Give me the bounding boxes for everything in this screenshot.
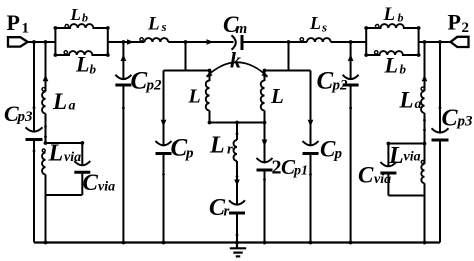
wire Lvia block right bottom — [388, 195, 424, 197]
svg-text:L: L — [52, 89, 67, 114]
arrow up on Cp2 left branch — [121, 54, 127, 61]
pin dot below Cp3 left — [33, 150, 36, 153]
ground — [230, 243, 246, 257]
capacitor Cp right — [303, 141, 319, 154]
arrow down on 2Cp1 branch — [262, 140, 268, 147]
svg-text:L: L — [48, 140, 64, 166]
label Lb top-left — [70, 5, 89, 25]
svg-text:L: L — [399, 88, 414, 113]
pin dot below Lr — [236, 175, 239, 178]
label Cp left — [171, 135, 195, 162]
wire drop to coupled right — [288, 42, 290, 71]
node junction dot left Cp3 branch — [32, 40, 36, 44]
wire Cp3 left branch down — [33, 42, 35, 133]
wire Cvia right branch down — [387, 144, 389, 168]
port P1 — [8, 37, 28, 46]
capacitor Cr — [229, 200, 245, 213]
svg-text:k: k — [230, 47, 241, 72]
label Cr — [209, 195, 230, 221]
inductor Lb box right: left edge — [365, 28, 367, 55]
wire La left to Lvia block — [45, 114, 47, 144]
inductor Ls left — [140, 38, 168, 42]
rail junction dots — [44, 241, 427, 245]
wire Cp2 left to bottom rail — [122, 85, 124, 243]
wire 2Cp1 to bottom rail — [264, 170, 266, 243]
svg-text:via: via — [98, 180, 115, 195]
svg-text:p2: p2 — [331, 78, 349, 94]
wire Cvia left to block bottom — [81, 172, 83, 195]
inductor Lvia left — [42, 149, 45, 174]
node junction dot Cp3 right branch — [438, 40, 442, 44]
node Lvia block right top-left — [387, 142, 391, 146]
capacitor Cp2 right — [343, 75, 359, 85]
node junction dot Cp2 right — [349, 40, 353, 44]
svg-text:L: L — [388, 143, 404, 169]
wire horizontal coupled left — [164, 70, 210, 72]
svg-text:b: b — [400, 61, 407, 76]
wire Lvia block right to bottom rail — [424, 196, 426, 243]
label Cm — [223, 12, 247, 37]
pin dot Cp3 right — [439, 106, 442, 109]
inductor Lb box right edge — [107, 28, 109, 55]
wire Cvia left branch down — [81, 143, 83, 166]
svg-text:m: m — [236, 21, 248, 37]
wire La right branch down — [424, 42, 426, 91]
inductor Ls right — [300, 38, 331, 42]
label L left — [188, 86, 201, 108]
inductor La left — [42, 88, 46, 114]
arrow down on Cp right branch — [308, 120, 314, 127]
svg-text:s: s — [321, 19, 327, 34]
arrow up on Cp2 right branch — [348, 54, 354, 61]
wire drop to coupled left — [185, 42, 187, 71]
svg-text:L: L — [147, 14, 160, 35]
wire Lvia block right top — [388, 143, 424, 145]
svg-text:C: C — [358, 163, 374, 188]
svg-text:2: 2 — [462, 20, 470, 36]
svg-text:via: via — [64, 150, 81, 165]
svg-text:L: L — [75, 52, 89, 77]
svg-text:via: via — [404, 150, 421, 165]
wire Lvia block to bottom rail — [45, 195, 47, 243]
pin dot below Cp2 right — [349, 107, 352, 110]
svg-text:b: b — [398, 10, 404, 24]
pin dots La left bottom — [44, 125, 47, 138]
wire Lvia left branch to block bottom — [45, 175, 47, 196]
svg-text:L: L — [188, 86, 201, 108]
label Cp right — [320, 137, 343, 163]
svg-text:C: C — [83, 170, 99, 195]
wire Lvia block bottom — [46, 194, 83, 196]
wire coupled bottom — [210, 122, 265, 124]
inductor L right — [261, 71, 266, 123]
svg-text:a: a — [69, 99, 76, 114]
inductor Lb box left edge — [54, 28, 56, 55]
wire horizontal coupled right — [265, 70, 311, 72]
capacitor Cvia right — [380, 162, 396, 173]
arrow up on La right branch — [422, 75, 428, 82]
node junction dot Cp2 left — [122, 40, 126, 44]
svg-text:P: P — [7, 10, 20, 35]
arrow right on wire before Cm — [207, 39, 214, 45]
port P2 — [451, 37, 469, 47]
wire Ls right to Lb box right — [331, 41, 367, 43]
wire Cp2 left branch down — [122, 42, 124, 80]
label Lr — [209, 133, 233, 159]
wire Ls left to Cm — [168, 41, 233, 43]
wire La left branch down — [45, 42, 47, 92]
inductor Lb box right: right edge — [418, 28, 420, 55]
node Lvia block top left — [44, 141, 48, 145]
arrow up on La left branch — [43, 75, 49, 82]
node junction dot left La branch — [44, 40, 48, 44]
inductor Lvia right — [421, 144, 424, 196]
svg-text:1: 1 — [22, 21, 30, 37]
svg-text:b: b — [90, 61, 97, 76]
svg-text:C: C — [171, 135, 188, 162]
wire Cp3 left to bottom rail — [33, 140, 35, 243]
label Cp3 right — [442, 106, 474, 132]
wire Cm to right section — [242, 41, 307, 43]
wire 2Cp1 branch top — [264, 123, 266, 164]
pin dot Lr top — [236, 132, 239, 135]
label 2Cp1 — [272, 155, 309, 179]
label Ls left — [147, 14, 167, 35]
wire Cp2 right branch down — [350, 42, 352, 80]
inductor Lb bottom-left — [55, 51, 107, 55]
label P1 — [7, 10, 30, 37]
wire Cr to bottom rail — [236, 213, 238, 243]
svg-text:a: a — [415, 97, 422, 112]
pin dot Cp3 left — [33, 106, 36, 109]
pin dot below Cp2 left — [122, 107, 125, 110]
node junction dot La right branch — [423, 40, 427, 44]
pin dot below 2Cp1 — [263, 178, 266, 181]
svg-text:p1: p1 — [293, 164, 308, 179]
label La left — [52, 89, 76, 114]
wire Cp3 right to bottom rail — [439, 140, 441, 243]
Lb box left corner dots — [54, 26, 58, 57]
svg-text:C: C — [442, 106, 459, 132]
svg-text:L: L — [70, 5, 81, 24]
svg-text:p3: p3 — [456, 114, 474, 130]
arrow down on Cr branch — [234, 180, 240, 187]
svg-text:p: p — [184, 146, 194, 162]
svg-text:L: L — [209, 133, 225, 159]
capacitor Cp3 left — [26, 127, 43, 139]
pin dot below Cp right — [309, 173, 312, 176]
svg-text:C: C — [131, 67, 148, 94]
Lb box right corner dots — [106, 26, 110, 57]
label k — [230, 47, 241, 72]
label Cvia left — [83, 170, 116, 195]
Lb right box right corner dots — [417, 26, 421, 57]
svg-text:L: L — [309, 13, 321, 33]
capacitor Cp3 right — [432, 128, 449, 140]
node junction dot coupled drop left — [184, 40, 188, 44]
svg-text:L: L — [270, 84, 284, 108]
svg-text:r: r — [227, 142, 233, 158]
svg-text:p: p — [333, 146, 343, 162]
capacitor Cm — [232, 35, 243, 50]
svg-text:C: C — [317, 67, 334, 94]
arrow down on Cp left branch — [161, 120, 167, 127]
wire Cp left branch — [163, 71, 165, 147]
inductor La right — [421, 87, 425, 113]
inductor Lb top-right — [366, 24, 418, 28]
inductor Lb top-left — [55, 24, 107, 28]
inductor Lr — [234, 140, 238, 161]
svg-text:L: L — [384, 53, 398, 78]
wire Cp3 right branch down — [439, 42, 441, 134]
coupling arc k — [207, 62, 268, 77]
pin dots La right bottom — [423, 119, 426, 132]
node dot L right top — [263, 69, 267, 73]
label Lvia left — [48, 140, 82, 166]
svg-text:L: L — [383, 4, 396, 25]
bottom ground rail — [34, 241, 440, 243]
capacitor 2Cp1 — [257, 158, 273, 170]
svg-text:2: 2 — [272, 157, 282, 179]
wire Cp left to bottom rail — [163, 154, 165, 243]
label Ls right — [309, 13, 327, 35]
label P2 — [448, 9, 470, 36]
label Cvia right — [358, 163, 391, 188]
wire Cvia right to block bottom — [387, 173, 389, 196]
wire Lr branch top — [236, 123, 238, 141]
label Lb bottom-right — [384, 53, 407, 78]
label Cp2 left — [131, 67, 163, 94]
node dots coupled bottom — [208, 121, 267, 125]
capacitor Cp2 left — [115, 75, 131, 85]
wire Lr to Cr — [236, 161, 238, 206]
Lb right box left corner dots — [364, 26, 368, 57]
capacitor Cvia left — [74, 161, 90, 172]
inductor L left — [206, 71, 211, 123]
pin dot below Cp left — [162, 173, 165, 176]
wire Lb box right to P2 — [419, 41, 451, 43]
node Lvia block right top-right — [423, 142, 427, 146]
wire Lb box to Ls left — [108, 41, 145, 43]
wire Lvia block top — [46, 142, 83, 144]
label Lvia right — [388, 143, 421, 169]
pin dot above rail center — [236, 234, 239, 237]
svg-text:p2: p2 — [145, 78, 163, 94]
wire Cp right branch — [310, 71, 312, 147]
inductor Lb bottom-right — [366, 51, 418, 55]
arrow right on wire before Ls left — [127, 39, 134, 45]
label La right — [399, 88, 422, 113]
svg-text:P: P — [448, 9, 461, 34]
wire from P1 to Lb box — [28, 41, 56, 43]
svg-text:p3: p3 — [16, 109, 34, 125]
wire Cp right to bottom rail — [310, 154, 312, 243]
svg-text:b: b — [82, 10, 88, 24]
svg-text:r: r — [224, 204, 230, 220]
node junction dot coupled drop right — [287, 40, 291, 44]
wire Cp2 right to bottom rail — [350, 85, 352, 243]
label Lb top-right — [383, 4, 404, 25]
node Lvia block top right — [80, 141, 84, 145]
label Cp2 right — [317, 67, 349, 94]
wire La right to Lvia block — [424, 113, 426, 143]
label Lb bottom-left — [75, 52, 97, 77]
capacitor Cp left — [156, 141, 172, 154]
label L right — [270, 84, 284, 108]
svg-text:s: s — [161, 19, 167, 34]
node dot L left top — [208, 69, 212, 73]
label Cp3 left — [4, 101, 33, 126]
